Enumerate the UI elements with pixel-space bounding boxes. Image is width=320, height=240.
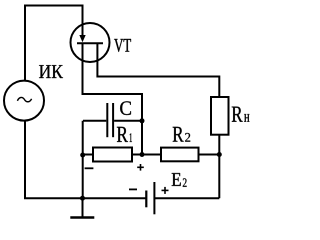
wire: bottom rail left segment [25,197,146,198]
wire: source bottom to rail [24,121,26,199]
wire: VT drain to Rn [97,43,219,97]
label R2 [173,127,184,142]
gate arrow of VT [79,35,85,42]
label plus (battery) [162,187,169,194]
label E2 [172,173,181,186]
node: C right plate junction [140,118,145,123]
battery E2 [146,182,154,214]
wire: Rn bottom to rail [218,135,220,199]
label minus (R1 left) [85,167,94,169]
wire: node left (C/R1) down to ground rail [82,121,84,198]
label minus (battery) [129,188,137,190]
node A (C right / R1-R2 junction) [140,152,145,157]
ground [70,198,94,217]
node: ground rail junction [80,196,85,201]
resistor R1 [83,148,142,162]
label C [120,101,131,115]
wire: source top to gate (top rail) [25,6,83,82]
node B (R2-Rn junction) [217,152,222,157]
label VT [114,39,131,52]
transistor VT [71,23,110,62]
resistor Rn [211,97,229,135]
label R1 [117,127,128,142]
source IK (AC source) [4,81,44,121]
resistor R2 [142,148,219,162]
label plus (R1 right) [137,164,144,171]
node: R1 left junction [80,153,85,158]
channel bar of VT [77,42,103,44]
wire: VT source to node A [83,43,143,154]
capacitor C [83,103,142,137]
wire: bottom rail right segment [154,197,219,199]
label IK [39,65,63,78]
label Rn [232,107,243,122]
